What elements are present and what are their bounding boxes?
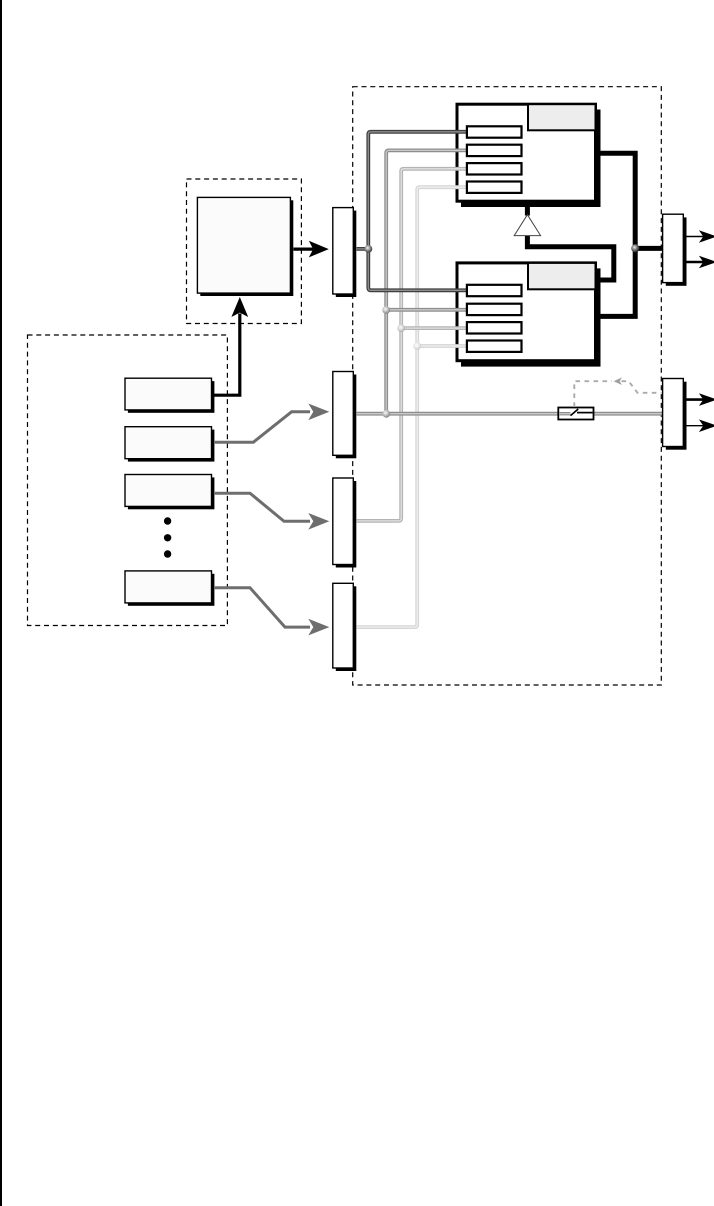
gray arrow C3 to N3 xyxy=(215,493,310,521)
C rect 3 shadow xyxy=(128,477,214,509)
left page rule xyxy=(0,0,2,1206)
big block U1 header xyxy=(528,104,596,130)
U2 input pin rect 2 xyxy=(467,304,522,315)
junction ball xlight xyxy=(413,342,421,350)
C rect 4 xyxy=(125,571,212,603)
junction ball medium lower xyxy=(382,410,390,418)
narrow box N1 shadow xyxy=(336,211,357,297)
narrow box N4 shadow xyxy=(336,586,357,671)
P1 arrow thick xyxy=(687,261,706,264)
square block S xyxy=(197,197,290,293)
dashed box A (around square block) xyxy=(187,179,302,324)
black wire rect C1 up to square S xyxy=(214,314,240,396)
C rect 3 xyxy=(125,475,212,507)
arrowhead into square S xyxy=(231,297,248,317)
buffer triangle xyxy=(514,215,540,236)
arrow square S to N1 xyxy=(294,248,314,251)
big block U2 shadow xyxy=(461,268,601,366)
gray arrow C4 to N4 xyxy=(215,588,310,627)
narrow box N3 xyxy=(333,478,354,565)
thick black wire buffer to U2 xyxy=(527,235,613,280)
narrow box N2 shadow xyxy=(336,375,357,459)
thick black wire junction to port P1 xyxy=(635,246,662,251)
port box P1 shadow xyxy=(666,217,687,285)
junction ball black xyxy=(631,244,639,252)
U2 input pin rect 4 xyxy=(467,341,522,352)
P2 arrow thin xyxy=(687,425,706,427)
ellipsis dot 1 xyxy=(164,517,171,524)
C rect 1 xyxy=(125,378,212,410)
wire net dark xyxy=(357,132,468,290)
C rect 1 shadow xyxy=(128,381,214,413)
thick black net U1/U2 outputs to junction xyxy=(597,153,636,316)
narrow box N1 xyxy=(333,208,354,294)
gray arrow C2 to N2 xyxy=(215,412,310,442)
narrow box N3 shadow xyxy=(336,481,357,568)
dashed control line from switch xyxy=(574,381,612,407)
big block U1 shadow xyxy=(461,110,601,208)
dashed box B (large clock region) xyxy=(353,87,662,685)
control arrowhead xyxy=(614,377,622,385)
ellipsis dot 3 xyxy=(164,550,171,557)
junction ball light xyxy=(397,324,405,332)
switch lever diagonal xyxy=(571,409,579,416)
C rect 2 xyxy=(125,427,212,459)
big block U1 xyxy=(457,104,596,201)
switch left gray stub xyxy=(559,412,570,415)
dashed box C (bottom-left group) xyxy=(28,335,228,626)
U1 input pin rect 3 xyxy=(467,163,522,174)
P1 arrow thin xyxy=(687,236,706,238)
U1 input pin rect 2 xyxy=(467,145,522,156)
narrow box N4 xyxy=(333,583,354,668)
port box P1 xyxy=(663,214,684,282)
ellipsis dot 2 xyxy=(164,534,171,541)
port box P2 shadow xyxy=(666,382,687,450)
square block S shadow xyxy=(200,200,293,296)
U2 input pin rect 3 xyxy=(467,322,522,333)
narrow box N2 xyxy=(333,372,354,456)
thick black wire U1 bottom to buffer xyxy=(525,203,530,216)
C rect 4 shadow xyxy=(128,574,214,606)
wire net xlight xyxy=(357,187,468,627)
junction ball dark xyxy=(365,245,373,253)
switch SW box xyxy=(558,408,593,420)
big block U2 header xyxy=(528,263,596,289)
port box P2 xyxy=(663,379,684,447)
switch output line xyxy=(577,412,593,414)
big block U2 xyxy=(457,263,596,361)
U2 input pin rect 1 xyxy=(467,285,522,296)
C rect 2 shadow xyxy=(128,430,214,462)
P2 arrow thick xyxy=(687,398,706,401)
U1 input pin rect 1 xyxy=(467,126,522,137)
wire net medium xyxy=(357,150,662,413)
wire net light xyxy=(357,169,468,521)
junction ball medium upper xyxy=(382,306,390,314)
dashed control line from port P2 xyxy=(622,381,662,393)
U1 input pin rect 4 xyxy=(467,182,522,193)
